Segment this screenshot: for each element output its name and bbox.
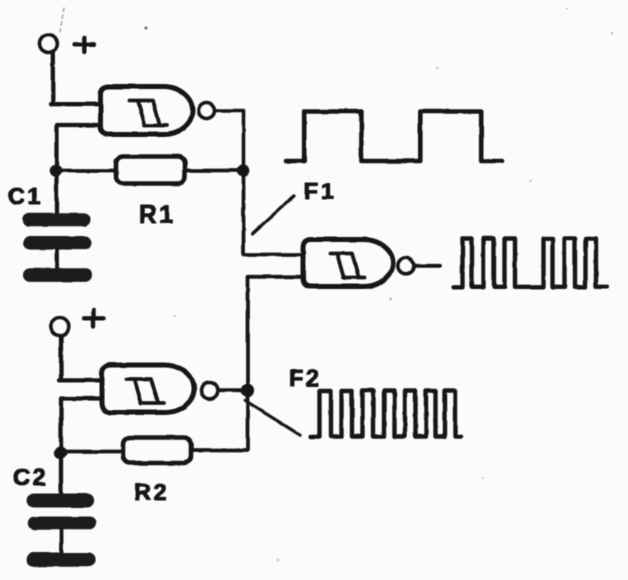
supply terminal T2 (+) <box>51 318 69 336</box>
hysteresis symbol U1 <box>130 101 167 126</box>
plus label T1 <box>75 38 95 53</box>
wire T1 to gate U1 input A <box>51 53 101 105</box>
wire R1 right to node F1 <box>185 169 244 173</box>
svg-text:C1: C1 <box>8 183 43 209</box>
output stub U3 <box>415 264 441 268</box>
NAND Schmitt gate U3 <box>303 240 393 287</box>
supply terminal T1 (+) <box>40 35 58 53</box>
junction node C2 <box>54 446 67 459</box>
svg-text:C2: C2 <box>13 464 48 490</box>
junction node C1 <box>49 164 62 177</box>
hysteresis symbol U3 <box>330 254 365 279</box>
wire R1 left to node C1 <box>57 169 117 173</box>
svg-text:R1: R1 <box>139 201 175 229</box>
capacitor C2 top plate <box>27 494 95 508</box>
junction node F2 <box>241 384 254 397</box>
leader line F1 <box>252 196 294 234</box>
NAND Schmitt gate U2 <box>102 365 194 413</box>
wire C2 to ground <box>60 530 64 553</box>
resistor R2 <box>123 438 191 464</box>
svg-text:F2: F2 <box>289 365 321 391</box>
output bubble U3 <box>398 258 414 274</box>
scratch mark top <box>60 8 64 32</box>
junction node F1 <box>237 164 250 177</box>
waveform F2 (fast square wave) <box>311 391 462 437</box>
ground bar C1 <box>23 268 92 282</box>
wire gate U1 input B to node C1 <box>57 125 101 213</box>
wire C1 to ground <box>55 249 59 268</box>
capacitor C1 top plate <box>23 213 91 227</box>
hysteresis symbol U2 <box>126 379 164 404</box>
waveform output (gated bursts) <box>453 239 607 287</box>
wire T2 to gate U2 input A <box>59 336 102 381</box>
wire gate U2 input B to node C2 <box>61 399 102 495</box>
wire R2 left to node C2 <box>61 450 123 454</box>
wire U2 output to node F2 <box>219 388 248 392</box>
svg-text:R2: R2 <box>134 479 169 505</box>
wire node F1 to gate U3 input A <box>244 171 304 255</box>
output bubble U1 <box>199 103 215 119</box>
resistor R1 <box>116 157 185 184</box>
speckle dot <box>145 27 148 30</box>
output bubble U2 <box>201 382 218 399</box>
wire gate U3 input B to node F2 <box>248 277 304 390</box>
waveform F1 (slow square wave) <box>286 112 502 162</box>
capacitor C2 bottom plate <box>28 517 97 530</box>
wire R2 right to node F2 <box>191 390 248 450</box>
NAND Schmitt gate U1 <box>101 87 193 135</box>
paper speckles <box>174 8 613 561</box>
capacitor C1 bottom plate <box>23 236 92 250</box>
wire U1 output to node F1 <box>216 111 244 171</box>
plus label T2 <box>84 310 103 327</box>
ground bar C2 <box>27 553 96 567</box>
leader line F2 <box>245 401 300 436</box>
svg-text:F1: F1 <box>304 178 336 204</box>
